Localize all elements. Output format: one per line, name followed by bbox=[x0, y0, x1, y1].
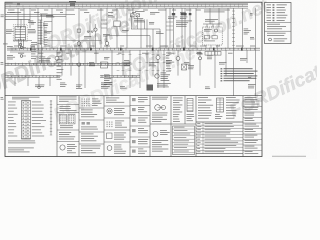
wire bus3 line 2 bbox=[5, 76, 140, 78]
cell C1 entry 4 bbox=[107, 133, 127, 140]
ignition switch label bbox=[28, 29, 36, 33]
wire bus2 line 2 bbox=[5, 64, 130, 66]
legend key divider 1 bbox=[265, 21, 292, 23]
wire mid bus line 2 bbox=[10, 49, 260, 51]
ignition switch dashed outline bbox=[13, 25, 27, 42]
legend key box bbox=[265, 3, 292, 44]
wiper pin header bbox=[197, 52, 221, 56]
watermark FORDification.net bottom right bbox=[227, 35, 320, 122]
wire drop x112 with connector box bbox=[101, 50, 113, 95]
bus3 ticks bbox=[8, 75, 136, 78]
legend divider x104 bbox=[103, 96, 105, 157]
cell D1b bottom entry bbox=[152, 130, 170, 152]
top bus connector ticks bbox=[58, 4, 243, 8]
legend divider x130 bbox=[129, 96, 131, 157]
wire drop x147 bbox=[147, 19, 154, 48]
connector C101 pin labels left bbox=[8, 102, 18, 137]
cell B1 entry 2 text bbox=[60, 106, 77, 111]
wire drop x166 bbox=[166, 8, 173, 48]
legend sub divider x185 partial bbox=[184, 96, 186, 124]
wire drop x190 bbox=[184, 50, 190, 88]
cell C1 entry 3 bbox=[107, 121, 128, 128]
fuse F2 bbox=[136, 14, 140, 17]
ground lamp x95 bbox=[94, 24, 97, 48]
wire drop x247 bbox=[240, 50, 247, 63]
ignition switch connector body bbox=[15, 27, 26, 41]
switch box x117 bbox=[108, 8, 120, 48]
top bus wire labels bbox=[8, 10, 230, 13]
wire left feed 2 bbox=[5, 15, 66, 17]
connector C2 label bbox=[248, 76, 252, 79]
lamp B5 x200 bbox=[199, 50, 202, 76]
legend divider x196 bbox=[195, 96, 197, 157]
wire drop x182 bbox=[181, 8, 184, 48]
lamp cluster x157 bbox=[155, 73, 170, 81]
cell B1 entry 4 text bbox=[59, 132, 75, 139]
wire drop x226 bbox=[219, 50, 227, 76]
wire drop x30 bbox=[30, 8, 36, 28]
cell E top left text bbox=[198, 97, 213, 119]
wire top bus line 2 bbox=[5, 5, 248, 7]
wire ignition feed drops bbox=[18, 8, 24, 28]
bus2 ticks bbox=[8, 63, 127, 66]
horn label block bbox=[7, 46, 18, 59]
legend divider x150 bbox=[149, 96, 151, 157]
cell F stacked label boxes bbox=[243, 97, 262, 154]
mid bus lower labels bbox=[18, 52, 233, 55]
hazard switch x173 bbox=[168, 8, 177, 48]
wire label ladder x166 bbox=[166, 53, 171, 72]
cell D2 top text bbox=[173, 98, 183, 122]
parts table body bbox=[196, 122, 243, 154]
cell C1 entry 2 bbox=[107, 108, 125, 115]
legend divider x57 bbox=[56, 96, 58, 157]
wire left feed 3 bbox=[5, 18, 30, 20]
wire drop x140 bbox=[139, 50, 141, 88]
legend divider x171 bbox=[170, 96, 172, 157]
legend key bottom rows bbox=[267, 33, 287, 42]
cell D3 connector sketch bbox=[187, 99, 195, 122]
top left terminal block bbox=[6, 3, 20, 5]
cell E top right text bbox=[226, 97, 240, 119]
wire drop x90 with diodes bbox=[84, 14, 93, 48]
copyright caption bottom right bbox=[272, 155, 306, 158]
cell B2 entry 1 dot grid bbox=[82, 99, 102, 107]
wire drop x147 lower bbox=[146, 50, 148, 88]
cell D1 text below bbox=[152, 113, 168, 122]
legend key divider 2 bbox=[265, 30, 292, 32]
wire label ladder x56 bbox=[57, 53, 64, 80]
cell C1 entry 5 bbox=[107, 145, 126, 154]
top bus wire labels row 2 bbox=[10, 11, 186, 14]
wire id text column x44 bbox=[44, 25, 48, 45]
wire left feed 1 bbox=[5, 13, 75, 15]
left panel notes bbox=[3, 15, 54, 44]
scan noise overlay bbox=[0, 0, 1, 1]
cell B1 entry 3 connector face pair bbox=[60, 114, 76, 128]
watermark FORDification.net lower middle bbox=[51, 39, 206, 126]
legend sub divider y122 cell E bbox=[196, 121, 243, 123]
wire mid bus line 1 bbox=[10, 47, 260, 49]
connector column x40 rungs bbox=[38, 20, 43, 45]
wire long horizontal y40 bbox=[13, 40, 101, 42]
horn symbols bbox=[20, 46, 26, 57]
wire drop x66 bbox=[65, 8, 67, 48]
legend key rows bbox=[267, 4, 288, 21]
bulkhead connector C101 body bbox=[22, 101, 31, 140]
cell A title bbox=[12, 97, 39, 100]
cell B1 entry 1 text bbox=[59, 97, 77, 102]
branch labels cluster x39 bbox=[39, 57, 51, 63]
watermark FORDification.net center right bbox=[118, 0, 273, 82]
wire staircase y35 bbox=[106, 36, 150, 49]
wire drop x101 bbox=[100, 8, 102, 48]
legend sub divider y124 cell D bbox=[150, 123, 196, 125]
wire drop x219 bbox=[218, 8, 220, 24]
wire top bus line 0 bbox=[5, 2, 248, 4]
legend key middle text bbox=[267, 24, 286, 29]
wire drop x141 bbox=[140, 29, 142, 48]
dark component block x148 bbox=[147, 85, 154, 91]
wire mid bus line 3 partial bbox=[10, 51, 130, 53]
mid bus labels bbox=[14, 45, 255, 48]
wire horizontal x131-160 y29 bbox=[131, 28, 160, 30]
fuse F1 bbox=[131, 14, 135, 17]
turn signal switch text cluster bbox=[176, 21, 192, 27]
legend strip top border bbox=[5, 95, 262, 97]
wire bus2 line 1 bbox=[5, 62, 130, 64]
wire drop x153 bbox=[152, 29, 154, 48]
wire drop x123 bbox=[122, 50, 124, 76]
lamp inline x79 bbox=[77, 42, 81, 46]
cell B2 entry 5 text bbox=[81, 146, 101, 154]
wire drop x190 bbox=[189, 8, 192, 48]
wire drop x127 bbox=[122, 8, 128, 48]
wire link y21 bbox=[44, 22, 52, 46]
wire drop x130 labels bbox=[124, 50, 132, 88]
bus3 drop wires bbox=[15, 77, 50, 88]
wire drop x164 bbox=[164, 50, 174, 88]
wire ignition switch outputs bbox=[19, 39, 24, 48]
cell A bottom note bbox=[8, 148, 34, 153]
component name labels row bbox=[35, 83, 256, 90]
lamp B3 x158 bbox=[156, 50, 160, 88]
mid bus connector ticks bbox=[12, 48, 255, 51]
instrument lamp x107 bbox=[103, 8, 110, 48]
fuse drops bbox=[132, 17, 145, 29]
wire top bus line 1 bbox=[5, 3, 248, 5]
wire rungs x101-x107 bbox=[101, 20, 107, 28]
lamp B2 x79 bbox=[77, 50, 85, 88]
lamp B4 x178 bbox=[176, 50, 180, 76]
wire drop x96 bbox=[89, 50, 96, 66]
wire drop x215 bbox=[207, 50, 215, 88]
wire tag ticks lower verticals bbox=[117, 55, 172, 71]
legend divider x243 bbox=[242, 96, 244, 157]
connector C101 pin labels right bbox=[32, 102, 46, 137]
ignition terminal circle bbox=[19, 43, 21, 45]
lamp B1 x57 bbox=[55, 50, 59, 63]
legend divider x79 bbox=[78, 96, 80, 157]
cell C1 dividers bbox=[104, 106, 130, 142]
wire top bus line 3 bbox=[5, 7, 248, 9]
wire drop x170 bbox=[169, 8, 171, 48]
cell A caption bbox=[8, 141, 35, 144]
edge connector strip cell A bbox=[50, 100, 52, 135]
wire id column x31 bbox=[31, 42, 37, 59]
edge registration marks bbox=[1, 15, 4, 100]
wire drop x228 bbox=[227, 8, 229, 48]
connector C1 x242 labels bbox=[243, 8, 251, 48]
diagram border frame bbox=[5, 2, 262, 156]
wire drop x62 bbox=[61, 50, 63, 76]
cell B2 entry 4 text bbox=[81, 134, 98, 142]
mid bus junction dashes bbox=[30, 48, 243, 51]
wire drop x185 bbox=[180, 8, 187, 48]
wiper motor assembly box bbox=[203, 19, 223, 48]
top bus splice ticks short bbox=[10, 5, 56, 7]
cell B2 dividers bbox=[79, 108, 104, 144]
resistor box with X x181 bbox=[182, 64, 194, 70]
wire drop x196 bbox=[195, 8, 197, 48]
wire drop x71 bbox=[70, 50, 72, 76]
cell E connector pill bbox=[215, 98, 224, 119]
left feed wire labels bbox=[7, 12, 53, 16]
wire drop x233 with ticks bbox=[232, 8, 235, 95]
gauge symbol G1 pair bbox=[155, 105, 166, 111]
watermark FORDification.net left bbox=[0, 10, 141, 106]
cell C1 entry 1 text bbox=[106, 98, 124, 103]
wire drop x210 bbox=[209, 8, 211, 24]
cell B1 dividers bbox=[57, 105, 79, 142]
wire id labels x104-112 bbox=[104, 75, 112, 85]
parts table row text bbox=[197, 123, 238, 152]
flasher unit x133 bbox=[132, 8, 134, 14]
cell C2 entries bbox=[132, 97, 148, 154]
watermark FORDification.net upper middle bbox=[33, 0, 188, 60]
wire bus3 line 1 bbox=[5, 75, 140, 77]
cell B2 entry 2 text bbox=[81, 110, 97, 118]
cell B2 entry 3 symbols bbox=[81, 122, 98, 130]
wire drop x153 lower bbox=[149, 50, 159, 76]
wire drop x160 bbox=[156, 29, 164, 48]
cell D4 bottom table bbox=[173, 126, 195, 155]
paper background bbox=[0, 0, 317, 159]
cell C2 dividers bbox=[130, 106, 150, 148]
wire drop x38 bbox=[37, 8, 39, 63]
wire color code list block bbox=[221, 68, 258, 81]
wire drop x41 bbox=[42, 14, 52, 63]
cell B1 entry 5 symbol and text bbox=[60, 144, 77, 153]
cell D1 title bbox=[152, 97, 168, 100]
resistor symbol x79 bbox=[77, 8, 81, 88]
starter relay cluster above bus bbox=[69, 1, 76, 6]
fuse labels bbox=[134, 11, 156, 22]
wire drop x52 bbox=[51, 8, 53, 48]
wire drop x255 bbox=[250, 8, 256, 95]
